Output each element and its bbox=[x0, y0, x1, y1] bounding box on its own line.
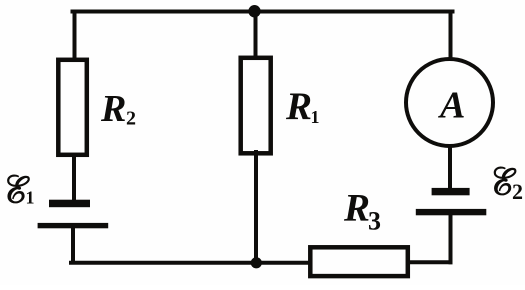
node bottom junction bbox=[251, 257, 262, 268]
battery E2 short thick plate bbox=[432, 188, 470, 195]
label R1 bbox=[285, 85, 320, 128]
wire ammeter to E2 bbox=[448, 148, 452, 189]
battery E1 long thin plate bbox=[38, 223, 109, 228]
wire R3 to E2 branch bbox=[408, 260, 451, 264]
resistor R3 bbox=[310, 247, 408, 276]
wire top horizontal bbox=[73, 10, 453, 14]
svg-text:3: 3 bbox=[368, 206, 381, 235]
label R2 bbox=[100, 88, 136, 130]
wire right vertical below E2 bbox=[449, 215, 453, 262]
wire top-right vertical bbox=[449, 12, 453, 59]
ammeter A circle bbox=[406, 59, 493, 146]
battery E1 short thick plate bbox=[49, 200, 90, 208]
label EMF E2 script bbox=[494, 167, 516, 195]
svg-text:2: 2 bbox=[512, 179, 523, 204]
label EMF E1 script bbox=[7, 175, 29, 203]
battery E2 long thin plate bbox=[416, 209, 487, 215]
wire R2 to battery E1 bbox=[72, 155, 76, 201]
resistor R1 bbox=[241, 58, 271, 154]
svg-text:2: 2 bbox=[126, 108, 136, 130]
svg-text:R: R bbox=[100, 88, 126, 130]
wire middle vertical bottom bbox=[254, 152, 258, 263]
node top junction bbox=[248, 5, 260, 17]
svg-text:A: A bbox=[438, 85, 465, 127]
wire top-left vertical bbox=[73, 12, 77, 60]
svg-text:1: 1 bbox=[26, 188, 35, 208]
svg-text:R: R bbox=[285, 85, 312, 128]
label R3 bbox=[343, 187, 381, 236]
wire middle vertical top bbox=[254, 12, 258, 59]
svg-text:R: R bbox=[343, 187, 370, 230]
svg-text:1: 1 bbox=[311, 107, 320, 127]
wire below battery E1 bbox=[71, 227, 75, 261]
resistor R2 bbox=[58, 60, 87, 155]
wire bottom horizontal bbox=[71, 261, 310, 265]
